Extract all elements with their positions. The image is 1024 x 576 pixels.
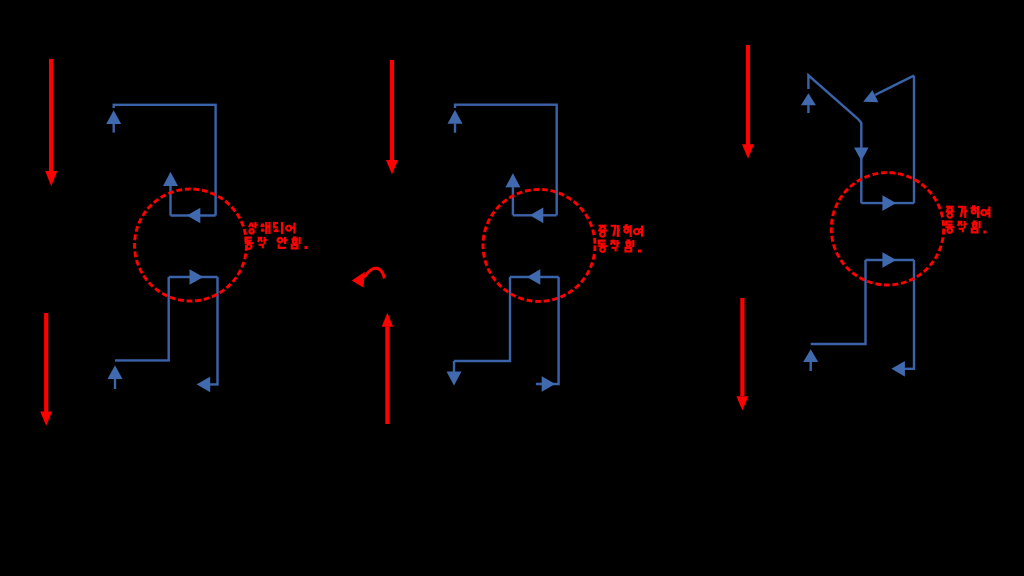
arrow S2 bottom-right right arrowhead: [542, 376, 556, 392]
label 상쇄되어: [249, 222, 295, 234]
wire S3 CT-bottom horizontal with right arrowhead: [866, 252, 915, 268]
label 동작함.: [598, 240, 641, 253]
arrow S1 CT-top vertical up: [163, 172, 178, 216]
wire S2 top horizontal: [455, 105, 557, 216]
wire S1 lower-right down: [209, 277, 218, 384]
red fault squiggle arrow: [352, 268, 385, 287]
wire S3 crossover diagonal right-to-left with arrowhead: [863, 76, 914, 103]
arrow S3 bottom-right left arrowhead: [891, 361, 905, 377]
label 동작 안함.: [245, 237, 308, 249]
label 증가하여: [945, 206, 989, 218]
wire S3 lower-right down: [904, 260, 914, 369]
wire S1 CT-bottom horizontal with right arrowhead: [169, 269, 218, 285]
red arrow C2 bottom primary current down: [736, 298, 748, 410]
arrow S1 bottom-left stub up: [108, 365, 123, 389]
wire S2 CT-top horizontal with left arrowhead: [513, 208, 557, 224]
red arrow A1 top-left primary current down: [45, 59, 57, 186]
arrow S2 CT-top vertical up: [505, 173, 520, 215]
arrow S3 top-left stub up: [801, 93, 816, 113]
wire S3 CT-top horizontal with right arrowhead: [861, 195, 914, 211]
red arrow A2 bottom-left primary current down: [40, 313, 52, 426]
wire S1 top horizontal: [114, 105, 216, 216]
wire S1 lower-left down to bottom: [115, 277, 169, 360]
arrow S2 top-left stub up: [448, 110, 463, 133]
arrow S3 crossover down arrowhead: [854, 148, 869, 161]
CT circle 2 (red dashed): [483, 189, 595, 301]
wire S3 right vertical from top corner: [913, 76, 915, 204]
wire S2 lower-left down to bottom: [454, 277, 510, 361]
red arrow B2 bottom fault current up: [382, 313, 393, 424]
wire S2 lower-right down: [536, 277, 559, 384]
wire S3 crossover diagonal left-to-right: [808, 75, 861, 203]
arrow S2 bottom-left stub down: [447, 361, 462, 386]
label 동작함.: [945, 221, 986, 234]
wire S2 CT-bottom horizontal with left arrowhead: [510, 269, 559, 285]
arrow S3 bottom-left stub up: [803, 349, 818, 371]
label 증가하여: [598, 225, 642, 237]
red arrow B1 top primary current down: [386, 60, 398, 174]
arrow S1 bottom-right left arrowhead: [197, 377, 211, 393]
red arrow C1 top primary current down: [742, 45, 754, 159]
wire S3 lower-left down to bottom: [811, 260, 866, 344]
CT circle 1 (red dashed): [135, 189, 247, 301]
CT circle 3 (red dashed): [831, 173, 943, 285]
arrow S1 top-left stub up: [106, 110, 121, 132]
wire S1 CT-top horizontal with left arrowhead: [171, 208, 216, 224]
